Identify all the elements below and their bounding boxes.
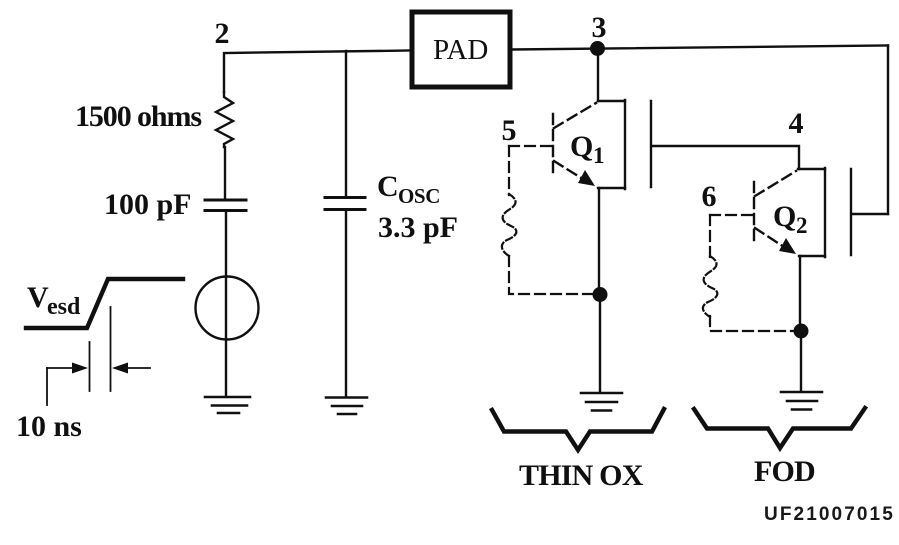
- dashed lead: resistor 5 top to Q1 base: [509, 145, 552, 147]
- wire: capacitor to ESD source and through to ground: [225, 211, 227, 396]
- svg-text:2: 2: [796, 213, 808, 238]
- ground (ESD source): [205, 397, 250, 413]
- leader line down from arrow to 10 ns label: [46, 368, 48, 405]
- wire: junction to ground (Q1): [599, 295, 601, 392]
- wire: junction to ground (Q2): [800, 331, 802, 391]
- wire: Q1 gate to node 4: [652, 146, 799, 169]
- svg-text:PAD: PAD: [433, 34, 488, 66]
- label C_OSC: [377, 170, 440, 208]
- arrow pointing right at left tick: [47, 363, 88, 374]
- transistor Q2 (field-oxide device with parasitic bipolar): [798, 168, 825, 257]
- capacitor C_OSC 3.3 pF: [325, 198, 365, 210]
- wire: resistor to capacitor 100pF: [224, 147, 226, 199]
- wire: C_OSC to ground: [345, 210, 347, 396]
- label Q2: [773, 200, 808, 238]
- svg-text:FOD: FOD: [754, 455, 815, 488]
- V_esd waveform: [26, 279, 183, 328]
- node 3 junction dot: [590, 41, 605, 56]
- brace (FOD): [694, 408, 865, 448]
- brace (THIN OX): [492, 409, 664, 450]
- svg-text:4: 4: [789, 107, 804, 140]
- wire: PAD right to node 3 and on to right rail: [512, 46, 888, 50]
- wire: Q2 source down to junction dot: [799, 256, 801, 327]
- Q2 gate plate: [850, 169, 852, 255]
- svg-text:6: 6: [702, 180, 717, 213]
- rise-time tick marks: [90, 307, 111, 391]
- svg-text:Q: Q: [570, 130, 593, 163]
- svg-text:OSC: OSC: [398, 184, 440, 208]
- Q1 parasitic bipolar (dashed): [553, 103, 596, 181]
- svg-text:V: V: [27, 281, 49, 314]
- svg-text:esd: esd: [47, 294, 81, 320]
- svg-text:100 pF: 100 pF: [104, 188, 192, 221]
- Q2 gate lead: [852, 213, 888, 215]
- svg-text:3: 3: [592, 11, 607, 44]
- capacitor C 100 pF: [205, 200, 246, 211]
- ESD pulse source V1: [196, 277, 259, 340]
- wire: Q1 source down to junction dot: [598, 188, 600, 290]
- dashed lead: down left side to resistor 6: [709, 215, 711, 258]
- junction dot (Q2 source / substrate): [794, 324, 809, 339]
- label V_esd: [27, 281, 81, 320]
- dashed lead: resistor 6 bottom to source node: [710, 316, 793, 331]
- junction dot (Q1 source / substrate): [593, 287, 608, 302]
- svg-text:1: 1: [593, 143, 605, 168]
- wire: right rail (node 3 to Q2 gate): [887, 46, 889, 215]
- ground (Q2 / FOD): [781, 392, 822, 410]
- label Q1: [570, 130, 605, 168]
- svg-text:3.3 pF: 3.3 pF: [378, 211, 458, 244]
- resistor R 1500 ohms: [216, 92, 233, 147]
- svg-text:Q: Q: [773, 200, 796, 233]
- PAD box: [412, 12, 510, 87]
- transistor Q1 (thin-oxide MOS with parasitic bipolar): [598, 100, 625, 189]
- arrow pointing left at right tick: [112, 363, 150, 374]
- svg-text:2: 2: [215, 17, 230, 50]
- svg-text:UF21007015: UF21007015: [764, 504, 895, 525]
- Q2 parasitic bipolar (dashed): [754, 171, 796, 249]
- svg-text:1500 ohms: 1500 ohms: [75, 100, 201, 133]
- dashed lead: down left side to resistor 5: [508, 146, 510, 195]
- ground (Q1 / THIN OX): [581, 393, 622, 411]
- wire: node 3 down to Q1 drain: [597, 50, 599, 101]
- resistor 6 (parasitic, squiggle): [703, 256, 717, 317]
- dashed lead: resistor 6 top to Q2 base: [710, 214, 753, 216]
- ground (C_OSC): [326, 398, 367, 415]
- Q1 gate plate: [650, 101, 652, 187]
- resistor 5 (parasitic, squiggle): [502, 194, 516, 256]
- svg-text:10 ns: 10 ns: [16, 410, 82, 443]
- svg-text:THIN OX: THIN OX: [519, 459, 644, 492]
- dashed lead: resistor 5 bottom to source node: [509, 256, 592, 294]
- svg-text:C: C: [377, 170, 399, 203]
- wire: top rail tap to C_OSC: [345, 51, 347, 197]
- svg-text:5: 5: [502, 114, 517, 147]
- Q1 emitter arrowhead: [578, 170, 595, 186]
- wire: node 2 corner to PAD left: [224, 51, 410, 93]
- Q2 emitter arrowhead: [779, 238, 796, 254]
